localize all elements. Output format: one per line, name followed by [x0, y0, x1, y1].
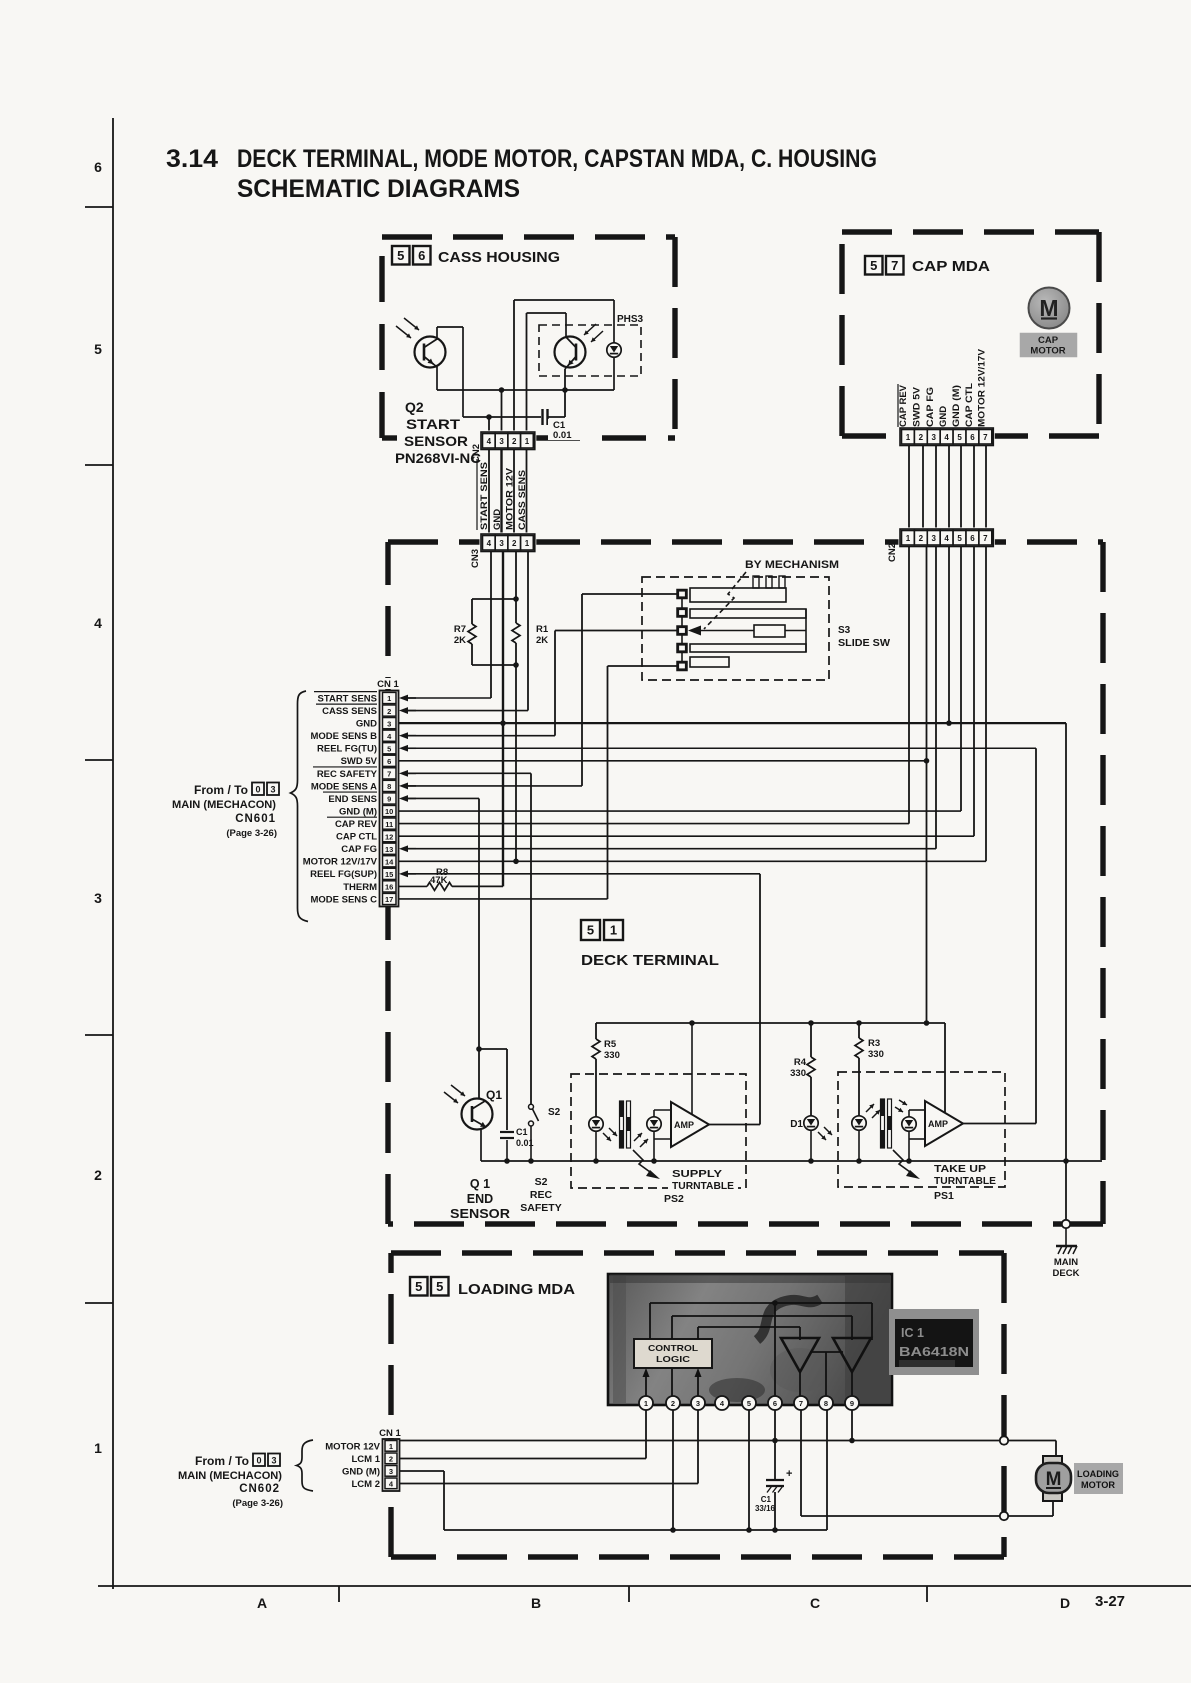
svg-text:MODE SENS A: MODE SENS A [311, 781, 377, 792]
svg-text:1: 1 [906, 534, 911, 543]
wire REC SAFETY vertical to S2 [530, 773, 532, 1104]
wire LCM 2 (CN1-4 to IC pin 3) [400, 1410, 699, 1484]
module [5][5] LOADING MDA enclosure [391, 1253, 1004, 1557]
svg-text:MAIN (MECHACON): MAIN (MECHACON) [172, 799, 276, 811]
connector CN1 (loading mda, 4 pins) [378, 1427, 403, 1491]
svg-text:CN3: CN3 [470, 549, 481, 568]
net label CAP FG (vertical) [925, 387, 936, 427]
wire GND(M) CN2-5 to CN1-10 [960, 546, 962, 811]
wire END SENS vertical to Q1 collector [476, 798, 482, 1098]
svg-text:GND: GND [356, 719, 377, 730]
svg-text:PN268VI-NC: PN268VI-NC [395, 451, 481, 466]
svg-text:D: D [1060, 1595, 1070, 1611]
svg-text:From / To: From / To [195, 1456, 249, 1468]
wire GND to main-deck ground (right side) [1063, 723, 1069, 1219]
svg-text:CN601: CN601 [235, 813, 276, 825]
svg-text:MOTOR 12V/17V: MOTOR 12V/17V [977, 348, 988, 427]
label Q2 START SENSOR PN268VI-NC [395, 399, 481, 466]
svg-text:16: 16 [385, 883, 393, 892]
wire loading motor - through border [1000, 1501, 1053, 1520]
svg-text:MODE SENS C: MODE SENS C [310, 894, 377, 905]
svg-text:33/16: 33/16 [755, 1504, 776, 1513]
svg-text:B: B [531, 1595, 541, 1611]
svg-text:9: 9 [850, 1399, 854, 1408]
svg-text:MOTOR: MOTOR [1081, 1480, 1115, 1490]
wire GND from CN1-3 [399, 722, 1066, 724]
module [5][1] DECK TERMINAL enclosure [388, 542, 1103, 1224]
svg-text:3: 3 [932, 433, 937, 442]
svg-text:SENSOR: SENSOR [450, 1207, 510, 1221]
optical slot of PS2 [620, 1101, 631, 1148]
wire SWD 5V CN2-2 down to 5V rail [926, 546, 928, 1023]
svg-text:47K: 47K [430, 875, 448, 886]
svg-text:LOGIC: LOGIC [656, 1354, 690, 1364]
svg-text:LOADING: LOADING [1077, 1469, 1119, 1479]
svg-text:IC 1: IC 1 [901, 1326, 924, 1340]
wire MOTOR 12V CN2-2 to CN3-2 [513, 450, 515, 536]
svg-text:8: 8 [824, 1399, 828, 1408]
svg-text:7: 7 [387, 770, 391, 779]
wire CASS SENS from CN1-2 [399, 707, 528, 714]
svg-text:3: 3 [932, 534, 937, 543]
svg-text:S2: S2 [535, 1176, 548, 1188]
svg-text:MOTOR: MOTOR [1030, 346, 1065, 357]
svg-text:4: 4 [944, 534, 949, 543]
svg-text:1: 1 [387, 694, 391, 703]
svg-text:CAP REV: CAP REV [335, 819, 378, 830]
svg-text:CAP: CAP [1038, 335, 1059, 346]
svg-text:5: 5 [957, 534, 962, 543]
net label SWD 5V (vertical) [912, 386, 923, 427]
wire START SENS CN2-4 to CN3-4 [488, 450, 490, 536]
svg-text:3: 3 [387, 719, 391, 728]
svg-text:BY MECHANISM: BY MECHANISM [745, 559, 839, 571]
svg-text:15: 15 [385, 870, 393, 879]
svg-text:4: 4 [944, 433, 949, 442]
svg-text:GND: GND [492, 509, 503, 530]
svg-text:REC: REC [530, 1189, 553, 1201]
svg-text:R4: R4 [794, 1057, 807, 1068]
bottom return rail of deck terminal [481, 1158, 1102, 1164]
svg-text:+: + [786, 1468, 792, 1480]
ground MAIN DECK [1053, 1220, 1080, 1279]
wire MOTOR 12V vertical from CN3-2 through R1 [515, 552, 517, 861]
wire END SENS from CN1-9 [399, 795, 479, 802]
wire PS2 AMP output to REEL FG(SUP) [709, 874, 760, 1125]
svg-text:6: 6 [387, 757, 391, 766]
svg-text:11: 11 [385, 820, 393, 829]
svg-text:2: 2 [671, 1399, 675, 1408]
svg-text:SWD 5V: SWD 5V [341, 756, 378, 767]
wire MOTOR 12V/17V from CN1-14 [399, 860, 986, 862]
net label GND (vertical) [492, 509, 503, 530]
svg-text:7: 7 [891, 258, 898, 273]
svg-text:REEL FG(TU): REEL FG(TU) [317, 744, 377, 755]
svg-text:CAP REV: CAP REV [898, 384, 909, 427]
svg-text:AMP: AMP [928, 1119, 948, 1129]
wire motor-12V top rail (row A) [514, 300, 614, 436]
svg-text:0: 0 [256, 1456, 261, 1466]
motor LOADING MOTOR symbol [1036, 1456, 1123, 1501]
wire GND CN2-3 to CN3-3 [500, 450, 502, 536]
svg-text:2: 2 [389, 1455, 393, 1464]
svg-text:0.01: 0.01 [553, 430, 572, 441]
svg-text:2: 2 [387, 707, 391, 716]
svg-text:GND: GND [938, 406, 949, 427]
resistor R8 47K on THERM row [427, 867, 503, 890]
svg-text:3: 3 [696, 1399, 700, 1408]
optical slot of PS1 [881, 1099, 892, 1148]
capacitor C1 0.01 (end sensor) [500, 1127, 534, 1161]
svg-text:MOTOR 12V/17V: MOTOR 12V/17V [303, 857, 378, 868]
svg-text:MOTOR 12V: MOTOR 12V [325, 1442, 380, 1453]
svg-text:PS2: PS2 [664, 1193, 684, 1205]
svg-text:CN2: CN2 [887, 543, 898, 562]
svg-text:SENSOR: SENSOR [404, 433, 468, 449]
switch S3 SLIDE SW enclosure [642, 577, 891, 680]
svg-text:CAP CTL: CAP CTL [336, 832, 377, 843]
svg-text:2: 2 [512, 437, 517, 446]
svg-text:1: 1 [610, 923, 617, 938]
svg-text:LCM 1: LCM 1 [352, 1454, 381, 1465]
pin name labels for CN1 [303, 692, 378, 906]
junction dots on CN1 rows [500, 720, 952, 864]
wire MODE SENS A to S3 contact 1 [582, 594, 677, 786]
svg-text:SUPPLY: SUPPLY [672, 1168, 722, 1180]
wire START SENS vertical to CN1-1 [490, 552, 492, 698]
net label CAP CTL (vertical) [964, 383, 975, 427]
photo diode of PS2 [634, 1110, 661, 1161]
svg-text:END SENS: END SENS [328, 794, 377, 805]
svg-text:M: M [1046, 1469, 1062, 1490]
svg-text:THERM: THERM [343, 882, 377, 893]
wire MODE SENS C from CN1-17 [399, 898, 608, 900]
svg-text:TAKE UP: TAKE UP [934, 1163, 986, 1175]
svg-text:C: C [810, 1595, 820, 1611]
svg-text:PS1: PS1 [934, 1190, 954, 1202]
svg-text:SCHEMATIC DIAGRAMS: SCHEMATIC DIAGRAMS [237, 175, 520, 203]
svg-text:CONTROL: CONTROL [648, 1343, 698, 1353]
wire LCM 1 (CN1-2 to IC pin 1) [400, 1410, 647, 1459]
svg-text:1: 1 [389, 1442, 393, 1451]
LED of PHS3 [607, 300, 621, 390]
svg-text:12: 12 [385, 832, 393, 841]
svg-text:CN 1: CN 1 [379, 1428, 401, 1439]
connector (cap mda output, pins 1-7) [899, 427, 995, 448]
net label MOTOR 12V/17V (vertical) [977, 348, 988, 427]
svg-text:330: 330 [868, 1049, 884, 1060]
net label GND (vertical) [938, 406, 949, 427]
svg-text:13: 13 [385, 845, 393, 854]
svg-text:7: 7 [799, 1399, 803, 1408]
svg-text:6: 6 [418, 248, 425, 263]
wire CASS SENS vertical to CN1-2 [527, 552, 529, 711]
page title [166, 145, 877, 203]
resistor R3 330 [855, 1023, 884, 1116]
svg-text:4: 4 [487, 437, 492, 446]
wire START SENS rail (row D) [463, 369, 565, 436]
switch S3 contacts and body [677, 576, 806, 671]
svg-text:D1: D1 [790, 1119, 803, 1130]
svg-text:(Page 3-26): (Page 3-26) [226, 828, 277, 839]
wire CAP CTL CN2-6 to CN1-12 [973, 546, 975, 836]
svg-text:M: M [1039, 295, 1058, 321]
svg-text:4: 4 [487, 539, 492, 548]
svg-text:MODE SENS B: MODE SENS B [310, 731, 377, 742]
note From/To [0][3] MAIN (MECHACON) CN601 (Page 3-26) [172, 783, 279, 840]
photo sensor PS2 SUPPLY TURNTABLE enclosure [571, 1074, 746, 1205]
resistor R5 330 [592, 1023, 620, 1117]
svg-text:LOADING MDA: LOADING MDA [458, 1282, 576, 1298]
svg-text:1: 1 [94, 1440, 102, 1456]
svg-text:S3: S3 [838, 625, 851, 636]
bottom zone ruler [98, 1586, 1191, 1611]
wire GND rail (row C) [437, 387, 614, 436]
svg-text:5: 5 [870, 258, 877, 273]
label 5 5 LOADING MDA [410, 1277, 576, 1298]
svg-text:CAP MDA: CAP MDA [912, 259, 991, 275]
wire GND CN2-4 to GND row [948, 546, 950, 723]
amplifier AMP of PS2 [654, 1023, 709, 1147]
wire CAP FG from CN1-13 [399, 845, 936, 852]
net label CASS SENS (vertical) [517, 470, 528, 530]
label Q1 END SENSOR [450, 1177, 510, 1221]
svg-text:2K: 2K [454, 635, 466, 646]
pointer arrow TAKE UP TURNTABLE [893, 1150, 1000, 1187]
wire REC SAFETY from CN1-7 [399, 770, 531, 777]
wire GND(M) return run (IC pins 2,5,8 and C1) [444, 1410, 827, 1533]
svg-text:5: 5 [94, 341, 102, 357]
svg-text:6: 6 [970, 433, 975, 442]
supply rail for sensors (SWD 5V) [596, 1020, 945, 1112]
svg-text:6: 6 [773, 1399, 777, 1408]
svg-text:2: 2 [512, 539, 517, 548]
svg-text:C1: C1 [516, 1127, 528, 1137]
svg-text:7: 7 [983, 534, 988, 543]
connector CN3 (deck terminal top, from cass housing) [470, 533, 536, 569]
wire MOTOR 12V row (CN1-1 / IC pins 6,9 / loading motor +) [400, 1410, 1057, 1456]
svg-text:1: 1 [644, 1399, 648, 1408]
svg-text:R5: R5 [604, 1039, 617, 1050]
svg-text:GND (M): GND (M) [951, 385, 962, 427]
svg-text:17: 17 [385, 895, 393, 904]
resistor R1 2K [512, 623, 549, 646]
label 5 6 CASS HOUSING [392, 246, 560, 266]
wire C1 branch from Q1 collector [479, 1049, 507, 1130]
svg-text:CASS HOUSING: CASS HOUSING [438, 250, 560, 266]
svg-text:5: 5 [415, 1279, 422, 1294]
LED of PS1 [852, 1104, 880, 1161]
left margin ruler [85, 118, 113, 1589]
svg-text:DECK: DECK [1053, 1268, 1080, 1279]
wire GND vertical (thick bus) from CN3-3 [502, 552, 504, 886]
photo transistor of PHS3 [555, 313, 604, 369]
wire START SENS from CN1-1 [399, 695, 491, 702]
svg-text:1: 1 [525, 539, 530, 548]
wire THERM from CN1-16 [399, 885, 427, 887]
svg-text:Q2: Q2 [405, 399, 424, 415]
wire MODE SENS B to S3 contact 3 [555, 631, 677, 736]
net label START SENS (vertical) [477, 459, 490, 530]
resistor R4 330 [790, 1023, 815, 1116]
svg-text:PHS3: PHS3 [617, 314, 644, 325]
brace for CN602 harness [297, 1440, 314, 1491]
internal wiring of IC1 [643, 1300, 873, 1396]
connector CN1 (deck terminal, 17 pins) [376, 678, 401, 907]
svg-text:SWD 5V: SWD 5V [912, 386, 923, 427]
wire cass-sens rail (row B) [527, 313, 567, 436]
wire GND (M) (CN1-3 down to return run) [400, 1471, 445, 1530]
LED of PS2 [589, 1117, 617, 1161]
svg-text:CAP FG: CAP FG [341, 844, 377, 855]
svg-text:5: 5 [436, 1279, 443, 1294]
svg-text:LCM 2: LCM 2 [352, 1479, 381, 1490]
svg-text:REEL FG(SUP): REEL FG(SUP) [310, 869, 377, 880]
wire MOTOR 12V/17V CN2-7 to CN1-14 [985, 546, 987, 861]
svg-text:A: A [257, 1595, 267, 1611]
svg-text:14: 14 [385, 857, 394, 866]
svg-text:TURNTABLE: TURNTABLE [672, 1180, 734, 1192]
svg-text:9: 9 [387, 795, 391, 804]
svg-text:3: 3 [94, 890, 102, 906]
svg-text:END: END [467, 1192, 493, 1206]
overline for CAP REV [897, 384, 899, 427]
photo interrupter PHS3 enclosure [539, 314, 644, 376]
svg-text:AMP: AMP [674, 1120, 694, 1130]
wire CASS SENS CN2-1 to CN3-1 [526, 450, 528, 536]
internal driver triangles of IC1 [781, 1338, 871, 1372]
switch S2 REC SAFETY [529, 1104, 561, 1161]
svg-text:2K: 2K [536, 635, 548, 646]
wire GND(M) from CN1-10 [399, 810, 961, 812]
svg-text:CN602: CN602 [239, 1483, 280, 1495]
svg-text:BA6418N: BA6418N [899, 1345, 969, 1359]
svg-text:TURNTABLE: TURNTABLE [934, 1175, 996, 1187]
svg-text:START SENS: START SENS [318, 693, 377, 704]
svg-text:CAP FG: CAP FG [925, 387, 936, 427]
svg-text:10: 10 [385, 807, 393, 816]
wire MODE SENS B from CN1-4 [399, 732, 555, 739]
svg-text:5: 5 [747, 1399, 751, 1408]
svg-text:REC SAFETY: REC SAFETY [317, 769, 378, 780]
svg-text:3-27: 3-27 [1095, 1593, 1125, 1610]
svg-text:GND (M): GND (M) [339, 806, 377, 817]
pointer arrow SUPPLY TURNTABLE [633, 1150, 738, 1192]
svg-text:CAP CTL: CAP CTL [964, 383, 975, 427]
svg-text:CASS SENS: CASS SENS [322, 706, 377, 717]
svg-text:CN 1: CN 1 [377, 679, 399, 690]
transistor Q1 END SENSOR [444, 1085, 502, 1161]
svg-text:R3: R3 [868, 1038, 880, 1049]
IC1 BA6418N block (driver IC) [608, 1274, 892, 1405]
wire CAP FG CN2-3 to CN1-13 [935, 546, 937, 849]
svg-text:From / To: From / To [194, 785, 248, 797]
svg-text:Q 1: Q 1 [470, 1177, 490, 1191]
net label CAP REV (vertical) [898, 384, 909, 427]
net label GND (M) (vertical) [951, 385, 962, 427]
connector CN2 (deck terminal top, from cap mda) [887, 528, 995, 563]
wire REEL FG(TU) from CN1-5 [399, 745, 1036, 752]
svg-text:3: 3 [389, 1467, 393, 1476]
wire CAP CTL from CN1-12 [399, 835, 974, 837]
diode D1 [790, 1116, 832, 1161]
svg-text:(Page 3-26): (Page 3-26) [232, 1498, 283, 1509]
svg-text:DECK TERMINAL: DECK TERMINAL [581, 952, 719, 969]
svg-text:8: 8 [387, 782, 391, 791]
svg-text:Q1: Q1 [486, 1088, 502, 1102]
svg-text:2: 2 [919, 534, 924, 543]
svg-text:START: START [406, 416, 461, 432]
svg-text:CASS SENS: CASS SENS [517, 470, 528, 530]
module [5][6] CASS HOUSING enclosure [382, 237, 675, 438]
module [5][7] CAP MDA enclosure [842, 232, 1099, 436]
svg-text:6: 6 [970, 534, 975, 543]
net label MOTOR 12V (vertical) [505, 467, 516, 530]
wire MODE SENS C to S3 contact 5 [608, 666, 678, 899]
pin labels MOTOR 12V / LCM 1 / GND (M) / LCM 2 [325, 1442, 380, 1491]
svg-text:R7: R7 [454, 624, 466, 635]
svg-text:MOTOR 12V: MOTOR 12V [505, 467, 516, 530]
note From/To [0][3] MAIN (MECHACON) CN602 (Page 3-26) [178, 1454, 283, 1510]
resistor R7 2K with parallel stubs [454, 596, 519, 668]
label 5 1 DECK TERMINAL [581, 920, 719, 969]
transistor Q2 START SENSOR [396, 318, 463, 417]
part label IC1 BA6418N [889, 1309, 979, 1375]
svg-text:4: 4 [94, 615, 102, 631]
svg-text:3: 3 [499, 539, 504, 548]
wire IC pin 7 to loading motor - [801, 1410, 1000, 1516]
svg-text:3: 3 [270, 785, 275, 795]
photo sensor PS1 TAKE UP TURNTABLE enclosure [838, 1072, 1005, 1202]
svg-text:6: 6 [94, 159, 102, 175]
wires cap-mda connector to CN2 (7 conductors) [909, 446, 986, 532]
wire SWD 5V from CN1-6 [399, 760, 927, 762]
svg-text:S2: S2 [548, 1107, 561, 1118]
svg-text:3: 3 [271, 1456, 276, 1466]
connector CN2 (cass housing) [471, 431, 536, 464]
photo diode of PS1 [895, 1100, 916, 1161]
brace for CN601 harness [291, 691, 309, 922]
svg-text:5: 5 [387, 744, 391, 753]
note BY MECHANISM with actuating arrow [704, 559, 839, 629]
svg-text:DECK TERMINAL, MODE MOTOR, CAP: DECK TERMINAL, MODE MOTOR, CAPSTAN MDA, … [237, 145, 877, 173]
svg-text:2: 2 [919, 433, 924, 442]
wire MODE SENS A from CN1-8 [399, 783, 582, 790]
svg-text:5: 5 [957, 433, 962, 442]
IC1 pins 1-9 [639, 1396, 859, 1410]
wire CAP REV from CN1-11 [399, 823, 909, 825]
svg-text:1: 1 [525, 437, 530, 446]
svg-text:7: 7 [983, 433, 988, 442]
capacitor C1 0.01 (cass housing) [543, 409, 581, 441]
svg-text:MAIN (MECHACON): MAIN (MECHACON) [178, 1470, 282, 1482]
wire CAP REV CN2-1 to CN1-11 [908, 546, 910, 824]
capacitor C1 33/16 (electrolytic) [755, 1410, 792, 1530]
svg-text:5: 5 [587, 923, 594, 938]
wire REEL FG(SUP) from CN1-15 [399, 870, 760, 877]
motor M CAP MOTOR symbol [1020, 288, 1077, 358]
svg-text:3.14: 3.14 [166, 145, 218, 173]
label S2 REC SAFETY [520, 1176, 561, 1214]
svg-text:SLIDE SW: SLIDE SW [838, 638, 891, 649]
svg-text:SAFETY: SAFETY [520, 1202, 561, 1214]
svg-text:GND (M): GND (M) [342, 1467, 380, 1478]
svg-text:2: 2 [94, 1167, 102, 1183]
svg-text:MAIN: MAIN [1054, 1257, 1078, 1268]
svg-text:330: 330 [604, 1050, 620, 1061]
svg-text:3: 3 [499, 437, 504, 446]
svg-text:5: 5 [397, 248, 404, 263]
